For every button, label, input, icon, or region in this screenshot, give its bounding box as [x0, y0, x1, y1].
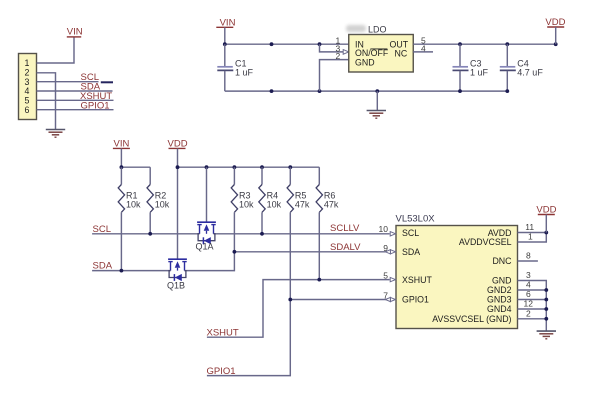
- wire ON/OFF jog: [320, 44, 344, 52]
- junction GND3 / bus: [544, 298, 548, 302]
- resistor R1: [118, 167, 141, 270]
- svg-text:SCLLV: SCLLV: [330, 223, 360, 234]
- wire DNC pin8 stub: [518, 260, 538, 262]
- wire Q1A drain to chip SCL: [214, 233, 390, 235]
- wire pin2 to ground: [37, 73, 56, 129]
- junction VDD rail / Q1A gate: [205, 165, 209, 169]
- svg-text:1 uF: 1 uF: [470, 68, 489, 78]
- capacitor C1: [217, 44, 253, 91]
- LDO U2: [349, 35, 414, 73]
- pin arrow LDO pin3: [343, 50, 349, 55]
- pin arrow chip pin9: [390, 250, 395, 254]
- svg-text:GPIO1: GPIO1: [402, 295, 429, 305]
- junction SCLLV / R4: [260, 232, 264, 236]
- junction SDALV / R3 / Q1B: [233, 250, 237, 254]
- svg-text:GPIO1: GPIO1: [81, 100, 110, 111]
- junction VDD rail / R4: [260, 165, 264, 169]
- wire GPIO1 to chip pin7: [207, 300, 390, 376]
- junction bottom rail / LDO GND jog: [318, 89, 322, 93]
- svg-text:XSHUT: XSHUT: [402, 275, 432, 285]
- wire top rail VIN to LDO IN: [225, 43, 349, 45]
- node SDA (connector): [81, 82, 101, 93]
- svg-text:XSHUT: XSHUT: [207, 327, 239, 338]
- junction AVSSVCSEL / bus: [544, 317, 548, 321]
- junction VDD rail / R3: [233, 165, 237, 169]
- ground (connector): [46, 130, 65, 138]
- svg-text:5: 5: [383, 271, 388, 281]
- transistor Q1A: [196, 167, 216, 251]
- svg-text:10k: 10k: [155, 200, 170, 210]
- svg-text:10k: 10k: [239, 200, 254, 210]
- supply VDD (pull-up rail): [168, 139, 188, 150]
- junction bottom rail / ground stub: [375, 89, 379, 93]
- junction GND2 / bus: [544, 288, 548, 292]
- node SCL (bus): [93, 224, 111, 235]
- wire LDO GND jog: [320, 60, 349, 92]
- svg-text:NC: NC: [395, 49, 408, 59]
- junction VIN rail / C1: [223, 42, 227, 46]
- junction VIN rail / R1: [120, 165, 124, 169]
- wire LDO OUT to VDD: [413, 43, 555, 45]
- node XSHUT (connector): [80, 91, 112, 102]
- wire SDALV to chip SDA: [234, 251, 389, 253]
- wire SCL to Q1A source: [92, 233, 199, 235]
- junction top rail / ON-OFF jog: [318, 42, 322, 46]
- junction OUT rail / VDD: [554, 42, 558, 46]
- wire AVDDVCSEL pin1 jog: [518, 233, 547, 243]
- junction SCL / R2: [148, 232, 152, 236]
- svg-text:SCL: SCL: [402, 228, 419, 238]
- svg-text:SDALV: SDALV: [330, 242, 361, 253]
- svg-text:2: 2: [336, 51, 341, 61]
- svg-text:6: 6: [25, 105, 30, 115]
- junction AVDD / VDD: [544, 231, 548, 235]
- wire pin3 SCL stub: [37, 81, 99, 83]
- svg-text:47k: 47k: [324, 200, 339, 210]
- svg-text:LDO: LDO: [368, 25, 387, 35]
- junction bottom rail / C4: [505, 89, 509, 93]
- svg-text:VIN: VIN: [67, 27, 83, 38]
- svg-text:1 uF: 1 uF: [235, 68, 254, 78]
- op chip U1 VL53L0X: [396, 213, 518, 328]
- svg-text:6: 6: [526, 289, 531, 299]
- supply VDD (chip): [536, 205, 556, 233]
- junction bottom rail A: [270, 89, 274, 93]
- wire XSHUT to chip pin5: [207, 280, 390, 338]
- svg-text:AVDDVCSEL: AVDDVCSEL: [459, 237, 512, 247]
- wire Q1B drain jog up to SDALV: [185, 252, 235, 271]
- junction GPIO1 / R5: [288, 298, 292, 302]
- svg-text:DNC: DNC: [492, 256, 512, 266]
- svg-text:10: 10: [379, 224, 389, 234]
- label LDO (value), blurred name: [346, 25, 387, 35]
- svg-text:SDA: SDA: [402, 247, 420, 257]
- svg-text:11: 11: [525, 222, 534, 232]
- wire AVSSVCSEL pin2: [518, 318, 547, 320]
- node SCLLV: [330, 223, 360, 234]
- wire VIN rail: [121, 166, 150, 168]
- node SDA (bus): [93, 261, 113, 272]
- svg-text:1: 1: [528, 232, 533, 242]
- ground (chip): [537, 331, 556, 339]
- svg-text:Q1B: Q1B: [167, 280, 185, 290]
- svg-text:GND4: GND4: [487, 304, 512, 314]
- svg-text:10k: 10k: [267, 200, 282, 210]
- svg-text:10k: 10k: [126, 200, 141, 210]
- svg-text:4: 4: [526, 280, 531, 290]
- resistor R4: [259, 167, 282, 234]
- wire LDO NC stub: [413, 51, 433, 53]
- wire AVDD pin11 to VDD: [518, 232, 547, 234]
- svg-text:Q1A: Q1A: [196, 242, 214, 252]
- wire GND pin3 to bus: [518, 281, 547, 331]
- svg-text:4.7 uF: 4.7 uF: [517, 68, 543, 78]
- junction bottom rail / C3: [458, 89, 462, 93]
- pin arrow chip pin7: [390, 297, 395, 301]
- junction GND4 / bus: [544, 307, 548, 311]
- node SDALV: [330, 242, 361, 253]
- supply VIN (pull-up rail): [113, 139, 130, 168]
- junction XSHUT / R6: [317, 278, 321, 282]
- wire VDD rail: [178, 166, 320, 168]
- connector J1: [19, 54, 37, 120]
- resistor R2: [147, 167, 170, 234]
- wire GND2 pin4: [518, 289, 547, 291]
- svg-text:GND: GND: [355, 58, 375, 68]
- capacitor C3: [453, 44, 489, 91]
- supply VIN (connector): [67, 27, 83, 38]
- wire VIN down to rail: [224, 27, 226, 44]
- junction VDD rail / R5: [288, 165, 292, 169]
- junction top rail A: [270, 42, 274, 46]
- pin arrow chip pin5: [390, 277, 395, 281]
- ground (LDO): [367, 91, 386, 118]
- svg-text:GND2: GND2: [487, 285, 512, 295]
- wire SDA to Q1B source: [92, 270, 170, 272]
- capacitor C4: [500, 44, 544, 91]
- junction OUT rail / C4: [505, 42, 509, 46]
- wire GND3 pin6: [518, 299, 547, 301]
- svg-text:GPIO1: GPIO1: [207, 366, 236, 377]
- node GPIO1 (bottom): [207, 366, 236, 377]
- svg-text:2: 2: [526, 308, 531, 318]
- svg-text:47k: 47k: [295, 200, 310, 210]
- svg-text:GND: GND: [492, 276, 512, 286]
- wire GND4 pin12: [518, 308, 547, 310]
- supply VIN (LDO input): [216, 18, 235, 29]
- wire VDD down to Q1B gate (crosses SCL): [177, 148, 179, 259]
- wire pin5 XSHUT stub: [37, 99, 114, 101]
- junction OUT rail / C3: [458, 42, 462, 46]
- wire bottom rail (GND): [225, 90, 508, 92]
- svg-text:8: 8: [526, 251, 531, 261]
- resistor R6: [316, 167, 339, 279]
- transistor Q1B: [167, 259, 187, 290]
- junction SDA / R1: [120, 269, 124, 273]
- resistor R5: [287, 167, 310, 299]
- svg-text:12: 12: [524, 299, 534, 309]
- svg-text:3: 3: [526, 270, 531, 280]
- resistor R3: [231, 167, 254, 252]
- node GPIO1 (connector): [81, 100, 110, 111]
- node SCL (connector): [81, 72, 114, 83]
- svg-text:VL53L0X: VL53L0X: [396, 213, 436, 224]
- supply VDD (top right): [545, 17, 565, 44]
- wire pin4 SDA stub: [37, 90, 113, 92]
- junction VDD rail / VDD lead: [176, 165, 180, 169]
- pin arrow chip pin10: [390, 232, 395, 236]
- wire pin1 to VIN: [37, 37, 75, 63]
- svg-text:AVSSVCSEL (GND): AVSSVCSEL (GND): [432, 314, 511, 324]
- wire pin6 GPIO1 stub: [37, 109, 114, 111]
- svg-text:GND3: GND3: [487, 295, 512, 305]
- node XSHUT (bottom): [207, 327, 239, 338]
